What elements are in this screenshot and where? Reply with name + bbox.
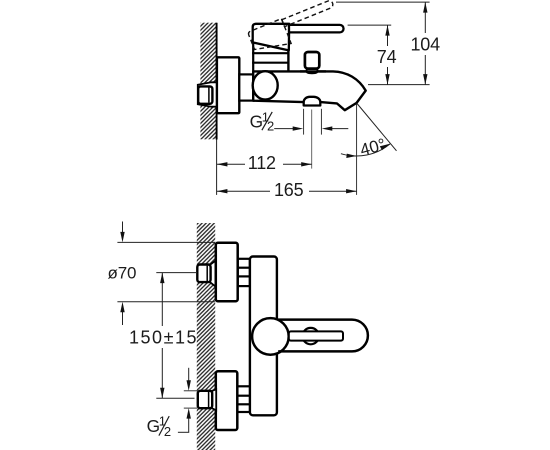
label G1/2 (front view) [147,413,172,439]
wall hatching (side view) [200,23,216,140]
40 degree reference line [357,103,397,151]
lower threaded shaft [237,386,250,412]
G1/2 extension lines (front view) [184,390,198,392]
150 top reference line [156,272,197,274]
svg-text:2: 2 [164,424,171,439]
valve body circle outline [252,318,289,355]
reference line top of lever (74) [348,24,392,26]
flange bottom reference line [117,301,214,303]
dashed alternate lever position [248,0,341,57]
G1/2 extension lines [303,109,305,135]
wall flange (side view) [217,57,239,113]
dimension 104 [424,2,426,85]
svg-text:104: 104 [410,35,440,55]
lower connection nut [198,391,212,408]
handle bar (front view) [278,320,368,352]
upper connection nut [197,265,210,283]
upper collar [210,261,215,287]
diverter knob [305,52,319,69]
lever handle bar [289,25,344,33]
G1/2 dimension left arrow [274,128,296,130]
flange top reference line [117,241,214,243]
faucet body and spout outline [253,71,366,110]
handle slot [289,331,343,340]
wall hatching (front view) [197,223,215,450]
wall extension line down to dimension 165 [216,140,218,195]
body tube [250,257,277,416]
dimension 112 [217,163,312,165]
handle hub [303,328,319,344]
upper flange (front view) [216,243,238,301]
lower flange (front view) [216,371,238,430]
dia 70 top arrow [122,222,124,239]
svg-text:112: 112 [248,153,276,173]
body top line over knob base [300,70,326,72]
arc arrowheads [346,154,356,158]
spout tip extension line [356,104,358,195]
wall surface line [216,23,218,140]
svg-text:74: 74 [377,47,397,67]
dimension 74 [387,25,389,85]
diverter knob base [307,69,318,73]
label G1/2 (top view) [250,110,275,134]
outlet centerline [311,110,313,169]
dia 70 bottom arrow [122,306,124,325]
40 degree arc [341,144,390,156]
dimension 165 [217,190,357,192]
valve body sphere [253,71,278,99]
lower collar [212,389,216,410]
reference line top of dashed lever (104) [336,1,430,3]
lever cap [253,24,290,51]
neck between flange and body [239,74,253,100]
svg-text:2: 2 [267,119,274,134]
svg-text:ø70: ø70 [108,263,137,282]
dimension 150+-15 [161,273,163,399]
svg-text:165: 165 [274,180,304,200]
valve body circle fill [252,318,289,355]
150 bottom reference line [156,397,194,399]
S-union collar behind wall [198,82,217,106]
shower outlet bump (G1/2) [304,97,321,106]
cartridge housing lines [252,43,254,72]
G1/2 top arrow (front view) [188,368,190,387]
svg-text:150±15: 150±15 [129,327,198,347]
G1/2 dimension right arrow [327,128,348,130]
G1/2 bottom arrow and leader [188,413,190,433]
S-union nut behind wall [198,86,212,103]
upper threaded shaft [238,259,250,286]
reference line spout outlet [368,84,430,86]
